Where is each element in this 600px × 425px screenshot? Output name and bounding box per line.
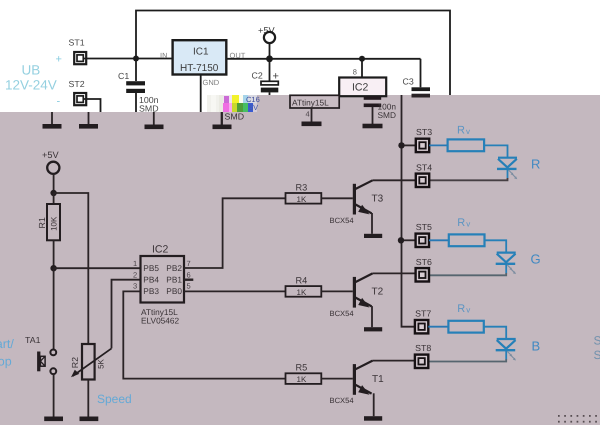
svg-text:-: -: [57, 96, 61, 108]
svg-text:R5: R5: [296, 363, 308, 373]
transistor Q T3: [330, 180, 384, 234]
svg-text:Speed: Speed: [97, 392, 132, 406]
svg-text:1K: 1K: [297, 375, 307, 384]
capacitor C3: [412, 87, 431, 97]
wire Rv B to LED B: [484, 327, 506, 339]
svg-text:SMD: SMD: [378, 110, 396, 120]
svg-text:R3: R3: [296, 183, 308, 193]
ground TA1: [44, 417, 63, 422]
resistor R4: [286, 276, 322, 297]
svg-text:+: +: [273, 71, 279, 83]
wire ST2 to bottom edge: [84, 99, 101, 112]
ground stub below boundary left1: [43, 112, 62, 129]
svg-text:T1: T1: [372, 374, 384, 385]
svg-text:12V-24V: 12V-24V: [5, 78, 57, 93]
svg-text:HT-7150: HT-7150: [180, 63, 219, 74]
resistor Rv G: [449, 217, 485, 246]
svg-text:R1: R1: [37, 217, 47, 228]
svg-text:T3: T3: [372, 194, 384, 205]
svg-text:UB: UB: [22, 63, 41, 78]
svg-text:R: R: [457, 303, 465, 315]
svg-text:R4: R4: [296, 276, 308, 286]
svg-text:6: 6: [187, 270, 191, 279]
svg-text:+5V: +5V: [42, 150, 59, 160]
wire node to ST3: [402, 144, 416, 146]
ST6 connector: [416, 257, 432, 282]
wire pin4 to ground: [311, 108, 313, 122]
svg-text:1: 1: [133, 259, 137, 268]
wire T2 collector to ST6: [373, 272, 416, 274]
ST1 connector: [74, 52, 86, 64]
wire LED R cathode to ST4: [429, 178, 507, 180]
ST4 connector: [416, 162, 432, 187]
wire pin7 to R3: [184, 198, 286, 268]
LED G: [496, 253, 516, 275]
node A junction: [133, 56, 139, 62]
svg-text:10K: 10K: [50, 216, 59, 231]
wire ST3 to Rv R: [429, 144, 447, 146]
node R1 top junction: [50, 190, 56, 196]
ground T1: [364, 416, 382, 421]
IC2 power block: [339, 78, 386, 97]
svg-text:ST5: ST5: [416, 222, 432, 232]
svg-text:TA1: TA1: [25, 335, 41, 345]
svg-text:5: 5: [187, 282, 191, 291]
wire LED G cathode to ST6: [429, 273, 506, 275]
svg-text:1K: 1K: [297, 195, 307, 204]
svg-text:PB3: PB3: [143, 286, 159, 296]
transistor Q T2: [330, 273, 384, 327]
svg-text:B: B: [532, 338, 541, 353]
wire junction to IC2 pin1: [54, 267, 141, 269]
svg-text:PB5: PB5: [143, 263, 159, 273]
svg-text:C3: C3: [403, 77, 414, 87]
svg-text:5V: 5V: [249, 103, 258, 112]
wire junction to R2 branch: [54, 193, 89, 344]
svg-text:3: 3: [133, 282, 137, 291]
ground stub below boundary left2: [79, 112, 98, 129]
wire T3 collector to ST4: [373, 179, 416, 181]
svg-text:Stop: Stop: [0, 355, 12, 369]
svg-text:ST8: ST8: [415, 343, 431, 353]
ground stub below boundary mid2 with SMD text: [213, 112, 245, 130]
ST7 connector: [415, 309, 431, 334]
wire Rv G to LED G: [485, 240, 507, 252]
svg-text:G: G: [531, 252, 541, 267]
resistor R1: [47, 193, 60, 268]
svg-text:7: 7: [187, 259, 191, 268]
wire Rv R to LED R: [484, 145, 507, 157]
svg-text:1K: 1K: [297, 288, 307, 297]
capacitor C4 100n SMD: [364, 96, 382, 124]
IC2 main block: [141, 244, 185, 303]
svg-text:ST1: ST1: [69, 38, 85, 48]
resistor R5: [286, 363, 322, 384]
svg-text:C2: C2: [252, 71, 263, 81]
ground T3: [364, 234, 382, 238]
svg-text:C1: C1: [118, 71, 129, 81]
wire +5V distribution vertical: [401, 95, 403, 240]
svg-text:IC2: IC2: [152, 244, 169, 256]
svg-text:PB1: PB1: [166, 275, 182, 285]
pushbutton TA1: [25, 335, 56, 417]
wire ST7 to Rv B: [428, 326, 448, 328]
white region right: [207, 0, 600, 95]
ground IC2 pin4: [302, 122, 322, 127]
svg-text:ST6: ST6: [416, 257, 432, 267]
transistor Q T1: [330, 361, 385, 417]
svg-text:5K: 5K: [96, 358, 105, 368]
ST8 connector: [415, 343, 431, 368]
svg-text:S: S: [594, 348, 600, 362]
node ST5 junction: [398, 237, 404, 243]
resistor Rv B: [448, 303, 483, 333]
svg-text:SMD: SMD: [225, 112, 245, 122]
svg-text:ELV05462: ELV05462: [141, 316, 180, 326]
svg-text:PB0: PB0: [166, 286, 182, 296]
wire node to ST5: [401, 239, 416, 241]
op-amp U1 regulator IC1 box: [173, 40, 227, 74]
svg-text:S: S: [594, 334, 600, 348]
ST3 connector: [416, 127, 432, 152]
wire node to IC1 IN: [136, 58, 173, 60]
svg-text:ST2: ST2: [69, 79, 85, 89]
LED R: [497, 158, 517, 180]
ground T2: [364, 327, 382, 331]
ground stub below boundary mid1: [145, 112, 164, 129]
wire R2 wiper to IC2 pin2: [112, 280, 141, 349]
node +5V junction: [266, 55, 273, 62]
resistor R3: [286, 183, 322, 204]
wire IC2 pin8 drop: [361, 59, 363, 78]
wire ST5 to Rv G: [429, 239, 449, 241]
svg-text:v: v: [466, 306, 470, 315]
+5V supply symbol lower: [42, 150, 59, 193]
resistor Rv R: [448, 125, 485, 152]
svg-text:Start/: Start/: [0, 337, 14, 351]
svg-text:v: v: [466, 127, 470, 136]
wire pin3 to R5: [123, 291, 285, 378]
wire rail corner to C3: [420, 59, 422, 88]
svg-text:+: +: [56, 54, 62, 66]
glitch block: [207, 95, 260, 112]
node TA1 junction: [50, 265, 56, 271]
white region left: [0, 0, 207, 112]
dotted pattern bottom right: [558, 415, 597, 423]
svg-text:BCX54: BCX54: [330, 216, 354, 225]
ATtiny15L type label box: [290, 95, 339, 108]
wire LED B cathode to ST8: [429, 359, 506, 361]
svg-text:ST7: ST7: [415, 309, 431, 319]
svg-text:IN: IN: [160, 51, 168, 60]
LED B: [496, 339, 516, 361]
svg-text:ST4: ST4: [416, 162, 432, 172]
ground R2: [80, 417, 99, 422]
+5V rail wire: [270, 58, 421, 60]
svg-text:4: 4: [306, 110, 310, 119]
svg-text:IC2: IC2: [352, 82, 369, 94]
svg-text:T2: T2: [372, 287, 384, 298]
svg-text:2: 2: [133, 270, 137, 279]
svg-text:BCX54: BCX54: [330, 396, 354, 405]
capacitor C2 electrolytic: [261, 59, 279, 95]
ground C4: [363, 124, 383, 129]
svg-text:R: R: [457, 217, 465, 229]
wire top frame: [136, 11, 450, 96]
+5V supply symbol: [258, 26, 275, 60]
wire R4 to T2 base: [321, 290, 353, 292]
svg-text:v: v: [466, 220, 470, 229]
svg-text:ST3: ST3: [416, 127, 432, 137]
wire junction down to TA1: [53, 268, 55, 349]
wire pin5 to R4: [184, 290, 286, 292]
wire R5 to T1 base: [321, 378, 353, 380]
node rail junction: [359, 56, 365, 62]
capacitor C1: [126, 59, 145, 113]
svg-text:R: R: [531, 157, 540, 172]
svg-text:SMD: SMD: [139, 104, 159, 114]
wire R3 to T3 base: [321, 197, 353, 199]
ST5 connector: [416, 222, 432, 247]
svg-text:R: R: [457, 125, 465, 137]
svg-text:PB4: PB4: [143, 275, 159, 285]
ST2 connector: [74, 93, 86, 105]
node ST3 junction: [398, 142, 404, 148]
svg-text:R2: R2: [70, 357, 80, 368]
svg-text:GND: GND: [203, 78, 220, 87]
svg-text:IC1: IC1: [193, 46, 209, 57]
wire ST1 to node: [84, 58, 137, 60]
wire IC1 GND down: [200, 75, 202, 113]
svg-text:ATtiny15L: ATtiny15L: [292, 97, 329, 107]
svg-text:8: 8: [353, 68, 357, 77]
svg-text:BCX54: BCX54: [330, 309, 354, 318]
potentiometer R2: [71, 344, 112, 417]
wire T1 collector to ST8: [373, 360, 415, 362]
svg-text:PB2: PB2: [166, 263, 182, 273]
pin6 stub: [184, 279, 193, 281]
wire IC1 OUT to +5V node: [226, 58, 269, 60]
